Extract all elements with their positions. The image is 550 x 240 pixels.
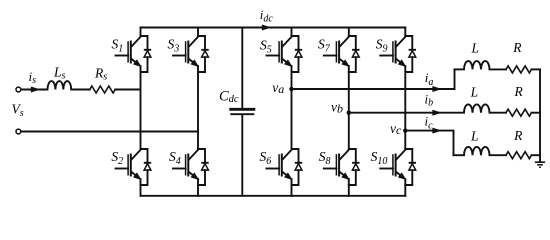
wire leg 3 midpoint	[291, 66, 293, 149]
wire resistor to leg 1	[115, 89, 140, 91]
IGBT switch S6 with antiparallel diode	[267, 149, 303, 185]
current arrow i_b	[433, 110, 441, 115]
wire phase a R to neutral	[532, 68, 541, 70]
IGBT switch S3 with antiparallel diode	[173, 36, 209, 72]
IGBT switch S1 with antiparallel diode	[116, 36, 152, 72]
wire phase b L to R	[490, 112, 507, 114]
IGBT switch S5 with antiparallel diode	[267, 36, 303, 72]
node v_c	[403, 128, 407, 132]
node v_b	[347, 111, 351, 115]
current arrow i_a	[433, 86, 441, 91]
wire leg 2 midpoint	[197, 66, 199, 149]
svg-text:R: R	[512, 40, 522, 55]
wire leg 5 midpoint	[404, 66, 406, 149]
IGBT switch S10 with antiparallel diode	[380, 149, 416, 185]
wire leg 1 emitter to bottom bus	[140, 179, 142, 196]
wire leg 1 midpoint	[140, 66, 142, 149]
wire phase c R to neutral	[532, 154, 541, 156]
wire phase b horizontal	[349, 112, 464, 114]
node v_a	[289, 87, 293, 91]
svg-text:vc: vc	[390, 121, 402, 137]
wire top DC bus	[141, 27, 406, 29]
wire leg 1 collector drop	[140, 28, 142, 37]
ground	[535, 161, 545, 163]
svg-text:L: L	[470, 85, 479, 100]
wire leg 2 emitter to bottom bus	[197, 179, 199, 196]
wire leg 4 midpoint	[348, 66, 350, 149]
inductor L phase b	[464, 104, 490, 112]
svg-text:vb: vb	[331, 99, 343, 115]
wire leg 3 emitter to bottom bus	[291, 179, 293, 196]
wire inductor to resistor	[71, 89, 90, 91]
terminal + of source Vs	[16, 87, 21, 92]
IGBT switch S9 with antiparallel diode	[380, 36, 416, 72]
wire leg 4 collector drop	[348, 28, 350, 37]
IGBT switch S8 with antiparallel diode	[324, 149, 360, 185]
wire neutral vertical	[539, 69, 541, 162]
wire phase b R to neutral	[532, 112, 541, 114]
svg-text:R: R	[514, 84, 524, 99]
wire leg 4 emitter to bottom bus	[348, 179, 350, 196]
resistor R phase b	[506, 109, 532, 116]
wire phase a L to R	[490, 68, 507, 70]
wire phase c L to R	[490, 154, 507, 156]
inductor Ls	[48, 81, 72, 89]
resistor R phase a	[506, 66, 532, 73]
IGBT switch S7 with antiparallel diode	[324, 36, 360, 72]
wire source bottom to leg 2	[21, 131, 198, 133]
svg-text:L: L	[470, 129, 479, 144]
svg-text:va: va	[272, 80, 284, 96]
wire bottom DC bus	[141, 195, 406, 197]
resistor Rs	[90, 86, 116, 93]
current arrow i_c	[433, 128, 441, 133]
resistor R phase c	[506, 152, 532, 159]
wire phase c with corner	[405, 131, 453, 156]
capacitor Cdc	[241, 28, 243, 109]
svg-text:L: L	[471, 41, 480, 56]
wire phase a to inductor	[455, 68, 465, 70]
IGBT switch S2 with antiparallel diode	[116, 149, 152, 185]
wire phase a with corner	[292, 69, 455, 89]
wire phase c to inductor	[454, 154, 465, 156]
inductor L phase c	[464, 147, 490, 155]
wire leg 5 collector drop	[404, 28, 406, 37]
wire leg 3 collector drop	[291, 28, 293, 37]
current arrow i_dc	[262, 25, 270, 30]
current arrow i_s	[31, 87, 39, 92]
svg-text:R: R	[513, 128, 523, 143]
wire leg 5 emitter to bottom bus	[404, 179, 406, 196]
inductor L phase a	[464, 61, 490, 69]
terminal - of source Vs	[16, 129, 21, 134]
wire source top to inductor	[21, 89, 47, 91]
IGBT switch S4 with antiparallel diode	[173, 149, 209, 185]
wire leg 2 collector drop	[197, 28, 199, 37]
